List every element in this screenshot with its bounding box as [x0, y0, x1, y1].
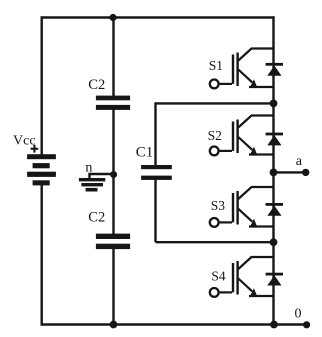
- wire middle rail center: [112, 110, 114, 235]
- svg-text:n: n: [85, 161, 92, 176]
- diode D4: [266, 273, 283, 286]
- wire right rail: [272, 16, 274, 325]
- node J2 (S2-S3, output a): [270, 169, 278, 177]
- battery Vcc: [27, 154, 56, 185]
- svg-text:S1: S1: [209, 58, 223, 73]
- svg-text:Vcc: Vcc: [13, 133, 36, 148]
- wire left rail lower: [41, 185, 43, 326]
- ground n: [79, 178, 105, 192]
- svg-text:S2: S2: [208, 128, 222, 143]
- svg-text:S4: S4: [211, 269, 226, 284]
- wire middle rail lower: [112, 249, 114, 326]
- node bottom-middle junction: [110, 321, 118, 329]
- transistor S3 (IGBT): [210, 187, 274, 228]
- capacitor C1: [141, 165, 172, 180]
- node terminal a: [302, 169, 309, 176]
- svg-text:C1: C1: [136, 145, 154, 161]
- svg-text:a: a: [296, 154, 303, 169]
- wire middle rail upper: [112, 16, 114, 96]
- svg-text:S3: S3: [211, 198, 226, 213]
- wire left rail upper: [41, 16, 43, 155]
- label + (battery positive): [31, 145, 39, 153]
- diode D3: [266, 203, 283, 216]
- wire bottom rail: [41, 323, 307, 325]
- wire C1 bottom horizontal: [156, 241, 274, 243]
- wire top rail: [41, 16, 275, 18]
- wire C1 vertical lower: [154, 179, 156, 242]
- node top junction: [109, 14, 116, 21]
- node J3 (S3-S4, C1 bottom): [270, 238, 278, 246]
- wire output a: [274, 171, 306, 173]
- wire C1 vertical upper: [154, 102, 156, 166]
- diode D2: [266, 133, 283, 146]
- svg-text:C2: C2: [88, 77, 105, 93]
- capacitor C2 (lower): [96, 234, 130, 249]
- wire C1 top horizontal: [156, 102, 274, 104]
- transistor S1 (IGBT): [210, 49, 274, 89]
- svg-text:0: 0: [295, 307, 302, 322]
- node terminal 0: [303, 321, 310, 328]
- svg-text:C2: C2: [88, 210, 105, 226]
- node J1 (S1-S2, C1 top): [270, 100, 278, 108]
- transistor S4 (IGBT): [210, 257, 274, 297]
- wire ground branch: [90, 174, 114, 179]
- node ground junction: [110, 171, 117, 178]
- capacitor C2 (upper): [96, 96, 130, 110]
- diode D1: [266, 63, 283, 76]
- node bottom-right junction: [270, 321, 278, 329]
- transistor S2 (IGBT): [210, 116, 274, 156]
